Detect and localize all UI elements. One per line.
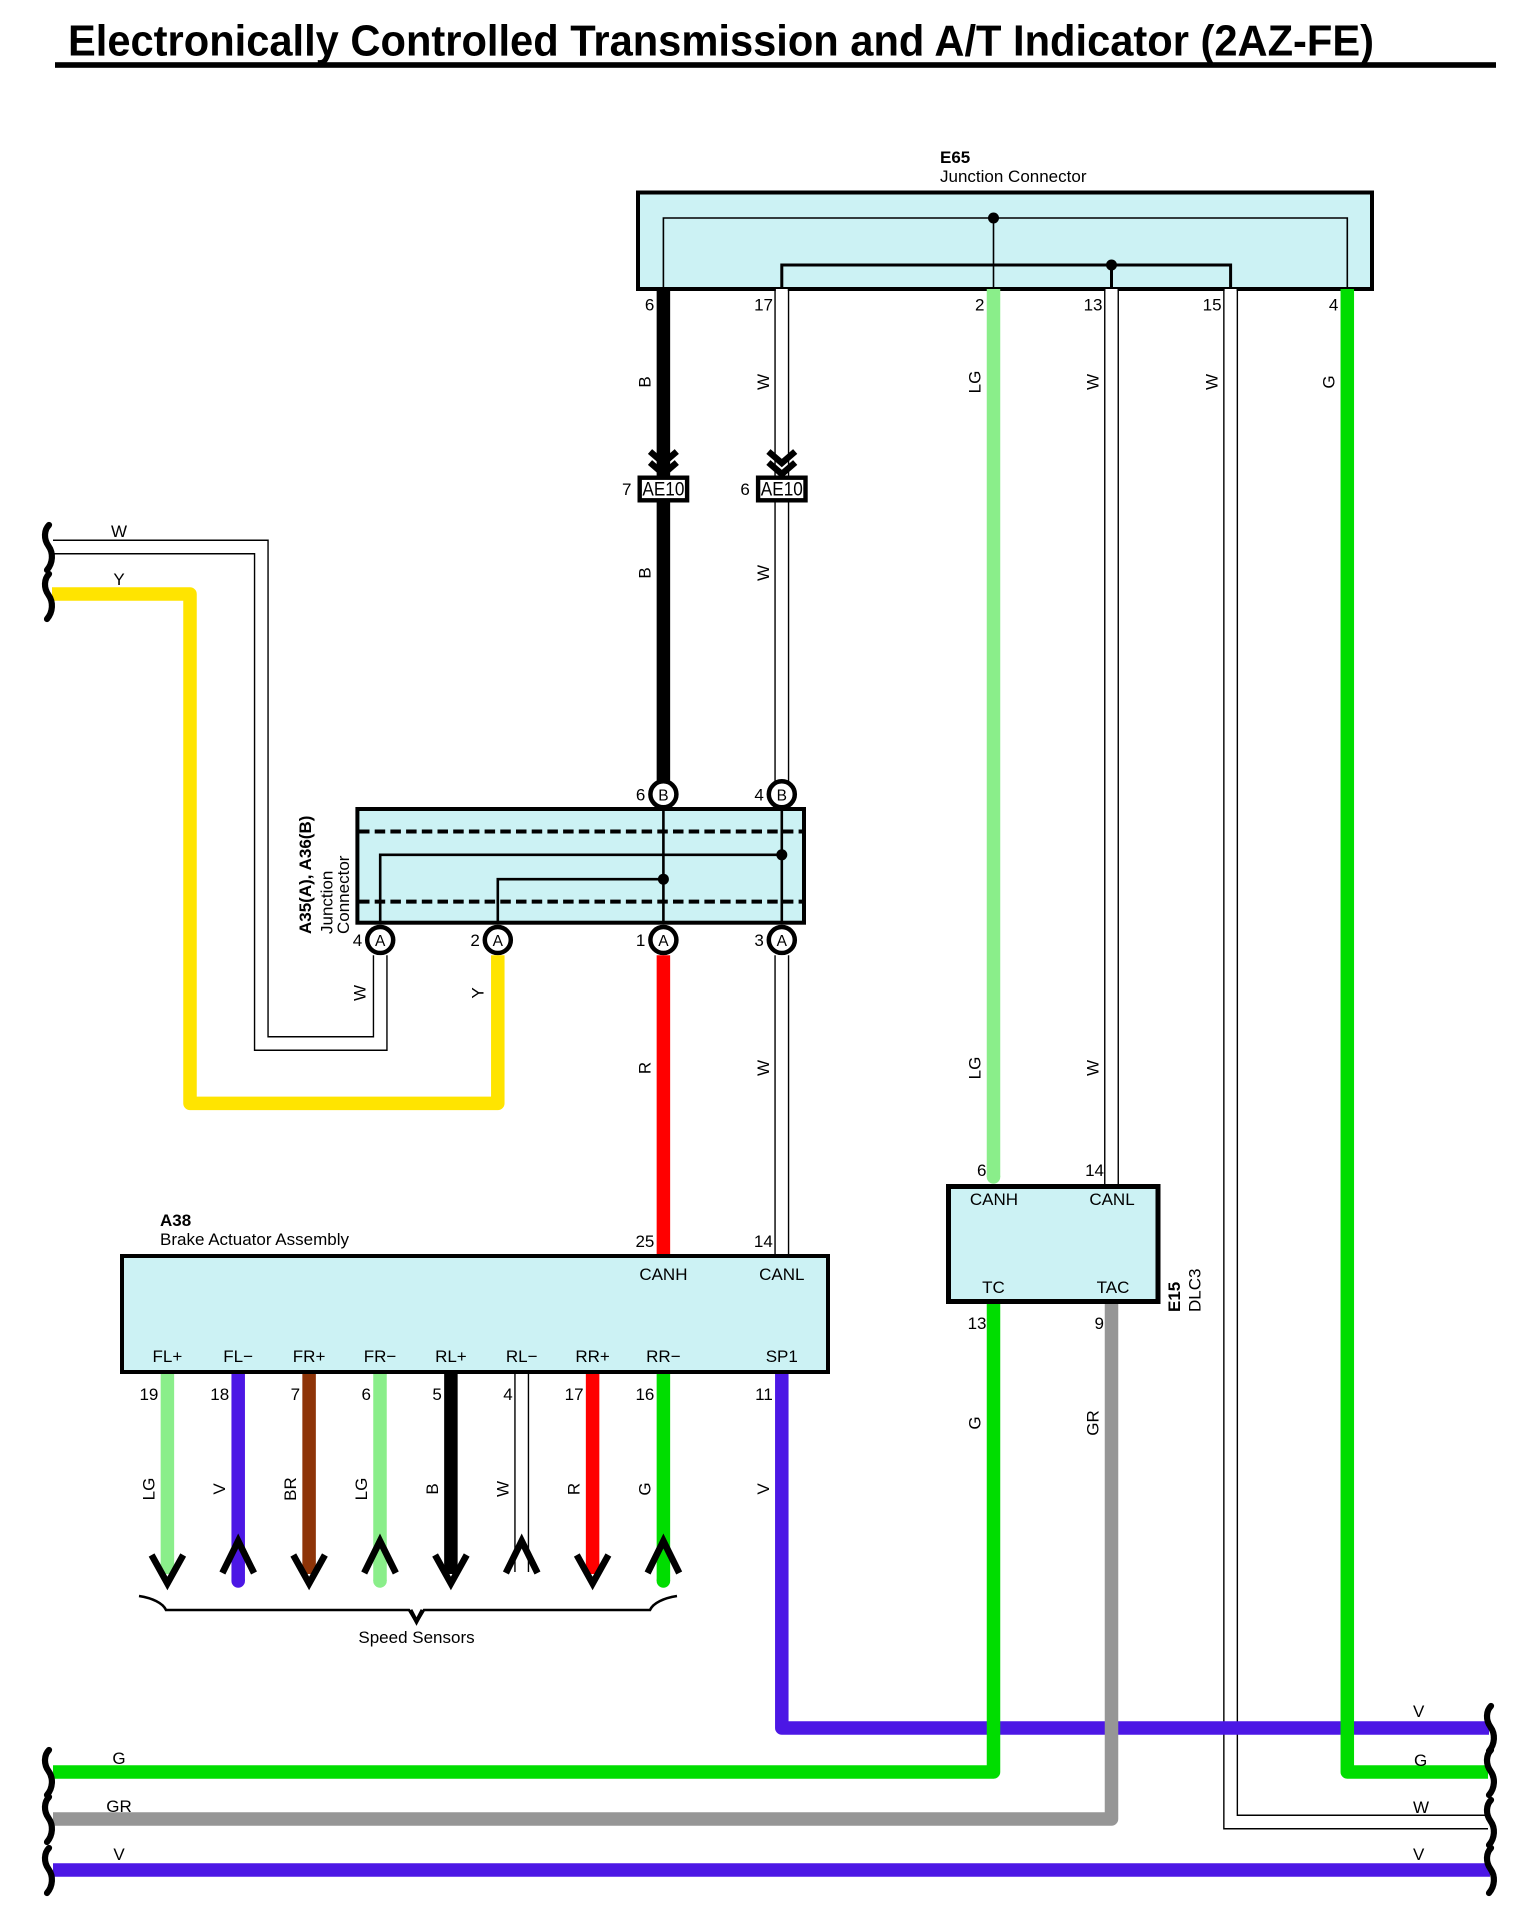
svg-text:9: 9 [1095,1314,1104,1333]
title underline [55,62,1496,68]
svg-text:CANL: CANL [1089,1190,1134,1209]
wire G from E65 pin 4 to right break [1347,289,1488,1772]
svg-text:DLC3: DLC3 [1186,1269,1205,1312]
svg-text:GR: GR [106,1797,132,1816]
svg-text:25: 25 [635,1232,654,1251]
svg-text:G: G [635,1482,654,1495]
E65 internal wire 1 (pin 6 to pin 4) [663,218,1347,290]
svg-text:G: G [1319,375,1338,388]
down arrow FL+ [152,1555,184,1584]
svg-text:CANH: CANH [970,1190,1018,1209]
svg-text:17: 17 [565,1385,584,1404]
wire W from E65 pin 15 to bottom right [1224,289,1488,1829]
svg-text:W: W [754,374,773,390]
connector AE10 (7) [640,478,687,501]
svg-text:B: B [635,567,654,578]
break symbol Y [45,574,52,619]
svg-text:7: 7 [291,1385,300,1404]
svg-text:V: V [210,1483,229,1495]
svg-text:B: B [777,787,787,804]
E15 DLC3 name rotated [1165,1282,1184,1312]
label G rotated (E65 pin4) [1319,375,1338,388]
break symbol W right [1487,1800,1494,1845]
svg-text:W: W [754,565,773,581]
label V SP1 [754,1483,773,1495]
pin circle 2A [485,927,511,953]
label BR FR+ [281,1477,300,1501]
svg-text:G: G [966,1416,985,1429]
svg-text:A: A [658,933,669,950]
svg-text:RL−: RL− [506,1347,538,1366]
break symbol W left [45,525,52,570]
svg-text:E65: E65 [940,148,970,167]
svg-text:4: 4 [754,785,763,804]
label W (pin13) lower [1084,1060,1103,1076]
E65 internal wire 1 branch to pin 2 [993,218,995,290]
svg-text:17: 17 [754,296,773,315]
E65 pin numbers [645,296,1338,315]
svg-text:FR+: FR+ [293,1347,326,1366]
label LG upper [966,371,985,394]
A35 junction dot on 6B line [658,874,669,885]
svg-text:E15: E15 [1165,1282,1184,1312]
svg-text:16: 16 [635,1385,654,1404]
svg-text:W: W [1203,374,1222,390]
svg-text:V: V [1413,1702,1425,1721]
wire Y (from break to A35 pin 2A) [52,594,498,1103]
svg-text:B: B [658,787,668,804]
wire B from AE10 to A35 pin 6B [657,503,671,785]
svg-text:BR: BR [281,1477,300,1501]
svg-text:Y: Y [113,570,124,589]
svg-text:Brake Actuator Assembly: Brake Actuator Assembly [160,1230,349,1249]
E65 internal wire 2 branch to pin 13 [1110,265,1113,290]
svg-text:V: V [754,1483,773,1495]
label V FL- [210,1483,229,1495]
up arrow FL- [222,1541,254,1573]
label Y rotated (near 2A) [468,987,487,998]
break symbol G left [45,1750,52,1795]
svg-text:4: 4 [353,931,362,950]
wire G from E15 TC to left break [53,1304,994,1772]
wire BR FR+ [302,1374,316,1574]
wire W from A35 pin 3A to A38 CANL [775,955,789,1254]
svg-text:15: 15 [1203,296,1222,315]
svg-text:Y: Y [468,987,487,998]
svg-text:A35(A), A36(B): A35(A), A36(B) [296,816,315,934]
label R RR+ [565,1483,584,1495]
svg-text:Speed Sensors: Speed Sensors [358,1628,474,1647]
wire W RL- [515,1374,529,1572]
pin circle 6B [650,781,676,807]
A35 dashed line upper [359,830,802,834]
A35 internal vertical 4B-3A [780,809,783,923]
svg-text:R: R [565,1483,584,1495]
A35 internal wire from 4A [380,855,782,923]
wire W from AE10 to A35 pin 4B [775,503,789,785]
label G rotated (TC) [966,1416,985,1429]
svg-text:1: 1 [636,931,645,950]
svg-text:2: 2 [470,931,479,950]
svg-text:V: V [113,1845,125,1864]
svg-text:11: 11 [755,1385,773,1404]
wire GR from E15 TAC to left break [53,1304,1112,1819]
svg-text:13: 13 [968,1314,987,1333]
svg-text:3: 3 [754,931,763,950]
wire W from E65 pin 13 to E15 CANL [1105,289,1119,1184]
A38 brake actuator assembly box [122,1256,828,1372]
svg-text:6: 6 [362,1385,371,1404]
label W (pin13) upper [1084,374,1103,390]
break symbol GR left [45,1797,52,1842]
svg-text:TAC: TAC [1097,1278,1130,1297]
svg-text:TC: TC [982,1278,1005,1297]
svg-text:14: 14 [1085,1161,1104,1180]
svg-text:FL+: FL+ [153,1347,183,1366]
wire R from A35 pin 1A to A38 CANH [657,955,671,1254]
A38 bottom pin numbers [139,1385,772,1404]
svg-text:AE10: AE10 [761,480,803,501]
svg-text:W: W [111,522,127,541]
label W RL- [494,1481,513,1497]
svg-text:LG: LG [352,1478,371,1501]
svg-text:A38: A38 [160,1211,191,1230]
wire B from E65 pin 6 to AE10 [657,289,671,476]
svg-text:7: 7 [622,480,631,499]
svg-text:14: 14 [754,1232,773,1251]
up arrow RL- [506,1541,538,1573]
svg-text:LG: LG [139,1478,158,1501]
svg-text:LG: LG [966,1057,985,1080]
wire LG from E65 pin 2 to E15 CANH [987,289,1001,1177]
svg-text:LG: LG [966,371,985,394]
label B upper [635,376,654,387]
up arrow RR- [648,1541,680,1573]
wire R RR+ [586,1374,600,1574]
label R rotated [635,1062,654,1074]
svg-text:B: B [635,376,654,387]
svg-text:RR−: RR− [646,1347,681,1366]
break symbol V bottom right [1487,1848,1494,1893]
svg-text:G: G [1414,1751,1427,1770]
E15 DLC3 box [949,1187,1159,1302]
svg-text:6: 6 [740,480,749,499]
E65 junction dot pin13 branch [1106,260,1117,271]
svg-text:4: 4 [1329,296,1338,315]
wire W from E65 pin 17 to AE10 [775,289,789,476]
A35 junction dot on 4B line [776,849,787,860]
svg-text:4: 4 [503,1385,512,1404]
A35 A36 junction connector name [296,816,315,934]
svg-text:GR: GR [1084,1410,1103,1436]
wire V FL- [231,1374,245,1581]
E65 internal wire 2 (pin 17 to pin 15) [782,265,1231,290]
svg-text:CANL: CANL [759,1265,804,1284]
svg-text:A: A [375,933,386,950]
connector AE10 (6) [758,478,805,501]
wire V bottom [53,1863,1490,1877]
label LG FL+ [139,1478,158,1501]
pin circle 4B [769,781,795,807]
label LG lower [966,1057,985,1080]
svg-text:19: 19 [139,1385,158,1404]
svg-text:R: R [635,1062,654,1074]
svg-text:SP1: SP1 [766,1347,798,1366]
svg-text:2: 2 [975,296,984,315]
svg-text:FR−: FR− [364,1347,397,1366]
label B RL+ [423,1483,442,1494]
svg-text:Electronically Controlled Tran: Electronically Controlled Transmission a… [68,17,1374,66]
svg-text:A: A [777,933,788,950]
svg-text:W: W [1413,1798,1429,1817]
up arrow FR- [364,1541,396,1573]
svg-text:Junction Connector: Junction Connector [940,167,1087,186]
pin circle 1A [650,927,676,953]
label B lower [635,567,654,578]
down arrow FR+ [293,1555,325,1584]
A38 bottom pin labels [153,1347,798,1366]
wire V from A38 SP1 to right break [782,1374,1489,1728]
svg-text:6: 6 [645,296,654,315]
svg-text:B: B [423,1483,442,1494]
A35 dashed line lower [359,900,802,904]
label W rotated (to CANL) [754,1060,773,1076]
wire W left (from break to A35 pin 4A) [53,540,387,1050]
double chevron arrow on W wire [768,452,795,475]
svg-text:V: V [1413,1845,1425,1864]
label W (pin15) [1203,374,1222,390]
svg-text:W: W [1084,374,1103,390]
svg-text:18: 18 [210,1385,229,1404]
wire LG FL+ [161,1374,175,1574]
svg-text:6: 6 [636,785,645,804]
svg-text:FL−: FL− [223,1347,253,1366]
label W (pin17) [754,374,773,390]
wire B RL+ [444,1374,458,1574]
E65 junction dot pin2 branch [988,213,999,224]
svg-text:W: W [1084,1060,1103,1076]
svg-text:5: 5 [432,1385,441,1404]
svg-text:CANH: CANH [639,1265,687,1284]
svg-text:W: W [351,985,370,1001]
down arrow RL+ [435,1555,467,1584]
label GR rotated [1084,1410,1103,1436]
svg-text:W: W [494,1481,513,1497]
pin circle 4A [367,927,393,953]
svg-text:RL+: RL+ [435,1347,467,1366]
label LG FR- [352,1478,371,1501]
wire G RR- [657,1374,671,1581]
svg-text:A: A [493,933,504,950]
svg-text:RR+: RR+ [575,1347,610,1366]
A35 internal vertical 6B-1A [662,809,665,923]
pin circle 3A [769,927,795,953]
break symbol V bottom left [45,1848,52,1893]
A35 junction connector box [357,809,804,923]
label W lower (to 4B) [754,565,773,581]
speed sensors brace [139,1596,677,1623]
svg-text:6: 6 [977,1161,986,1180]
break symbol G right [1487,1750,1494,1795]
svg-text:G: G [112,1749,125,1768]
down arrow RR+ [577,1555,609,1584]
A35 internal wire from 2A [498,879,664,923]
break symbol V right upper [1487,1706,1494,1751]
svg-text:W: W [754,1060,773,1076]
label W rotated (near 4A) [351,985,370,1001]
svg-text:Connector: Connector [334,855,353,934]
svg-text:AE10: AE10 [642,480,684,501]
wire LG FR- [373,1374,387,1581]
label G RR- [635,1482,654,1495]
svg-text:13: 13 [1084,296,1103,315]
double chevron arrow on B wire [650,452,677,475]
E65 junction connector box [638,193,1372,290]
